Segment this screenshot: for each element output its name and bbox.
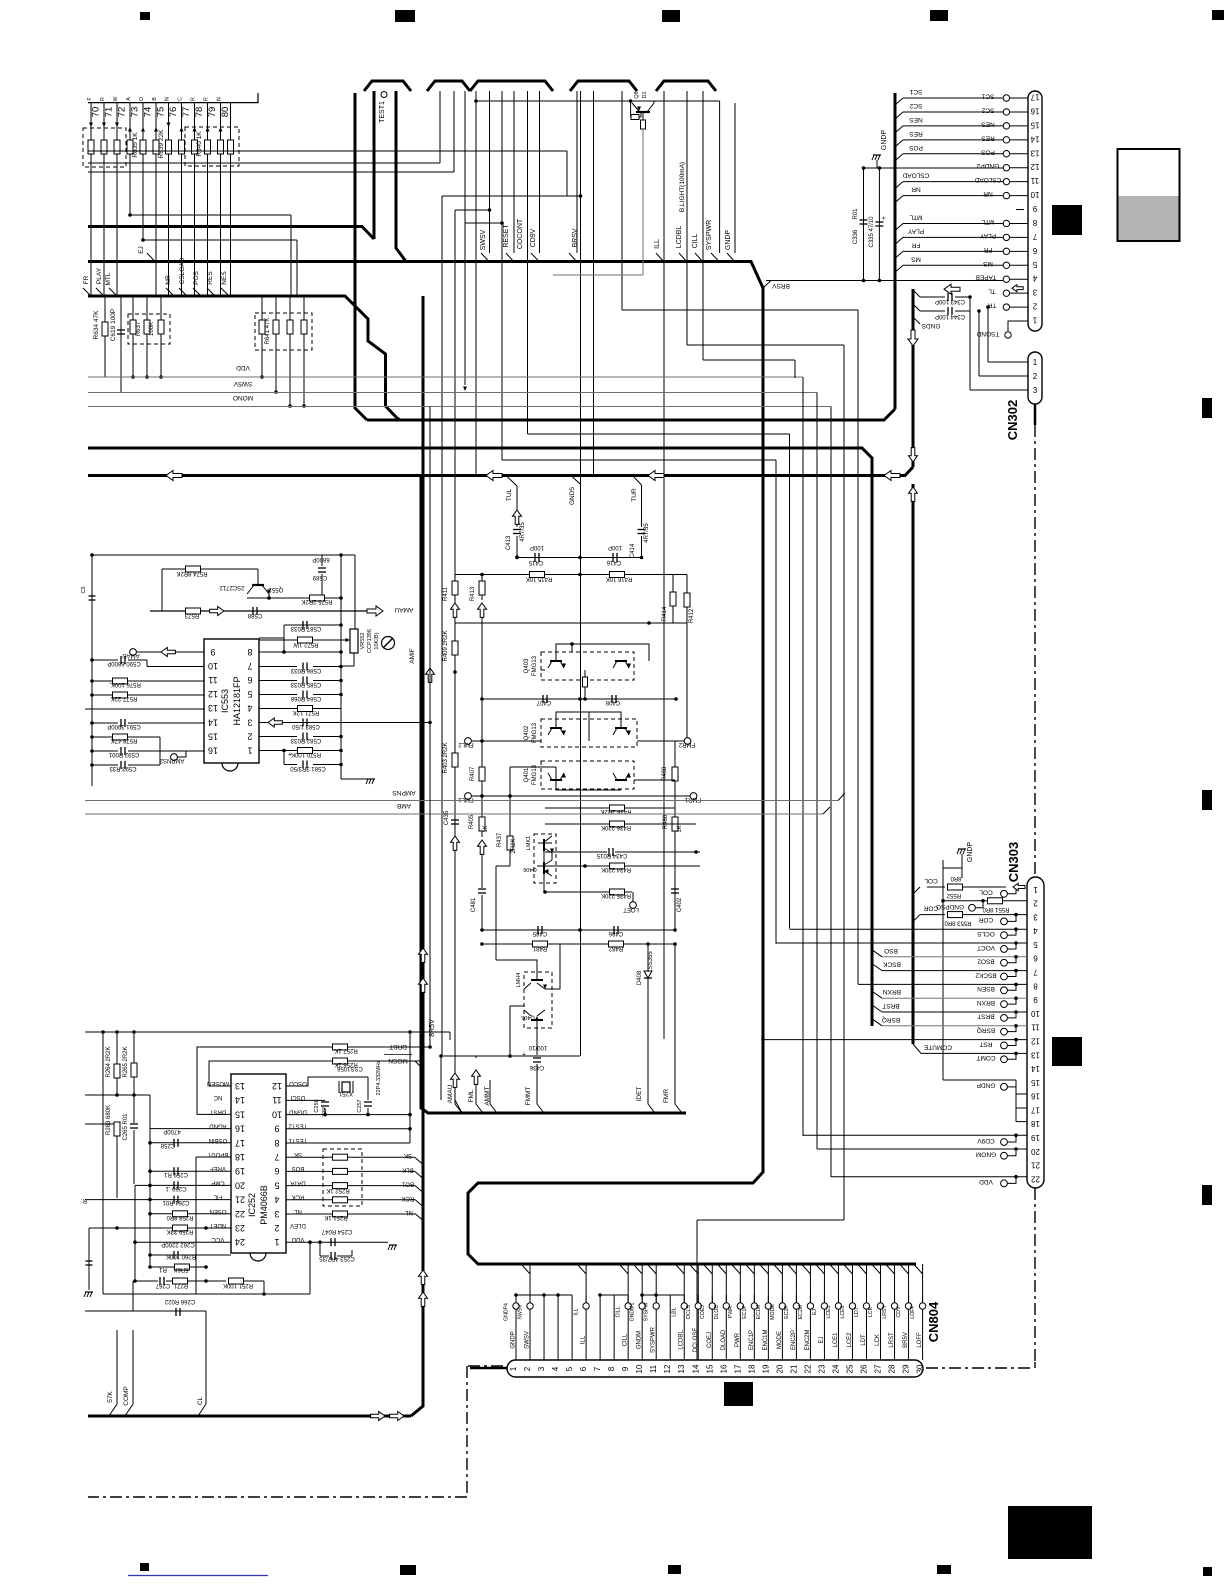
svg-text:R635 1K: R635 1K bbox=[132, 132, 139, 158]
svg-text:CILL: CILL bbox=[623, 1333, 629, 1346]
svg-text:2R2K: 2R2K bbox=[511, 838, 517, 853]
svg-text:16: 16 bbox=[1031, 1092, 1040, 1101]
svg-text:17: 17 bbox=[733, 1364, 742, 1373]
capacitor C583 1/50 bbox=[302, 719, 304, 727]
svg-text:R640 1K: R640 1K bbox=[196, 131, 203, 157]
wire COMUTE bbox=[913, 1044, 921, 1053]
resistor R251 100K bbox=[206, 1280, 226, 1282]
svg-text:15: 15 bbox=[235, 1109, 245, 1119]
wire VDD row bbox=[831, 1176, 1027, 1178]
svg-text:2: 2 bbox=[1033, 372, 1038, 381]
svg-text:13: 13 bbox=[235, 1081, 245, 1091]
svg-text:30: 30 bbox=[916, 1364, 925, 1373]
capacitor C408 bbox=[611, 695, 613, 703]
svg-text:10K(B): 10K(B) bbox=[374, 632, 380, 649]
svg-text:19: 19 bbox=[761, 1364, 770, 1373]
svg-text:EC2P: EC2P bbox=[784, 1305, 790, 1319]
svg-text:BRXN: BRXN bbox=[977, 999, 995, 1006]
svg-text:F: F bbox=[87, 97, 93, 100]
svg-text:C585 R033: C585 R033 bbox=[290, 681, 321, 687]
svg-text:LCE1: LCE1 bbox=[833, 1332, 839, 1348]
svg-text:10: 10 bbox=[1031, 1009, 1040, 1018]
svg-text:AMAU: AMAU bbox=[394, 606, 413, 613]
svg-text:10: 10 bbox=[272, 1109, 282, 1119]
svg-text:FMR: FMR bbox=[663, 1089, 670, 1103]
capacitor C436 100/10 bbox=[533, 1057, 541, 1059]
resistor R641 group bbox=[275, 296, 277, 320]
svg-text:COMT: COMT bbox=[976, 1054, 995, 1061]
wire BPOUT row bbox=[196, 1156, 231, 1158]
wire GND5 drop bbox=[571, 476, 580, 485]
resistor R437 2R2K bbox=[507, 836, 513, 850]
chain border to CN804 right bbox=[1034, 1362, 1036, 1368]
svg-text:D408: D408 bbox=[637, 970, 643, 985]
arrow up R405 bbox=[478, 840, 487, 854]
svg-text:28: 28 bbox=[888, 1364, 897, 1373]
svg-text:8: 8 bbox=[1032, 218, 1037, 227]
svg-text:FMR2: FMR2 bbox=[678, 741, 695, 747]
svg-text:PM4066B: PM4066B bbox=[259, 1185, 269, 1225]
svg-text:79: 79 bbox=[207, 107, 218, 118]
svg-text:W: W bbox=[113, 96, 119, 101]
svg-text:R438 2R2K: R438 2R2K bbox=[600, 808, 631, 814]
transistor pair Q403 FMG13 dashed box bbox=[541, 652, 634, 680]
resistor R438 2R2K bbox=[634, 779, 675, 781]
wire BSO bbox=[872, 950, 882, 957]
svg-text:N: N bbox=[165, 97, 171, 101]
circle FML1 bbox=[465, 793, 472, 800]
svg-text:70: 70 bbox=[91, 107, 102, 118]
wire NDET row bbox=[89, 1227, 231, 1229]
wire row y=944 bbox=[482, 943, 675, 945]
fiducial marks top edge bbox=[140, 12, 150, 20]
svg-text:2: 2 bbox=[247, 731, 252, 741]
svg-text:10: 10 bbox=[635, 1364, 644, 1373]
wire AGND row bbox=[150, 1128, 231, 1130]
CN302 pin4 TAPEB bbox=[1010, 278, 1029, 280]
svg-text:CD9V: CD9V bbox=[530, 228, 537, 247]
capacitor C267 bbox=[159, 1277, 161, 1285]
wire TUR drop bbox=[633, 476, 642, 486]
CN303 signal BSRQ bbox=[1001, 1028, 1008, 1035]
svg-text:VREF: VREF bbox=[210, 1165, 226, 1171]
svg-text:VR552: VR552 bbox=[360, 633, 366, 650]
svg-text:MODE: MODE bbox=[777, 1331, 783, 1349]
row R1 5R6K R271 bbox=[135, 1280, 158, 1282]
svg-text:12: 12 bbox=[208, 689, 218, 699]
svg-text:C586 R033: C586 R033 bbox=[290, 667, 321, 673]
capacitor C481 bbox=[481, 860, 483, 888]
svg-text:9: 9 bbox=[274, 1124, 279, 1134]
capacitor C265 R01 bbox=[133, 1095, 135, 1123]
wire pin3 AMIF row bbox=[259, 722, 430, 724]
svg-text:R1: R1 bbox=[159, 1266, 167, 1272]
wire right column x=687 bbox=[686, 623, 688, 741]
svg-text:FML2: FML2 bbox=[458, 741, 474, 747]
svg-text:23: 23 bbox=[235, 1223, 245, 1233]
resistor R411 bbox=[454, 575, 456, 582]
svg-text:R575 2R2K: R575 2R2K bbox=[301, 598, 332, 604]
svg-text:BSCK: BSCK bbox=[882, 961, 900, 968]
svg-text:15: 15 bbox=[1030, 120, 1039, 129]
svg-text:27: 27 bbox=[874, 1364, 883, 1373]
resistor R577 22K bbox=[92, 694, 112, 696]
svg-text:1K: 1K bbox=[483, 825, 489, 832]
svg-text:SC1: SC1 bbox=[909, 88, 922, 95]
right rail x=410 bbox=[409, 1032, 411, 1143]
svg-text:1K: 1K bbox=[677, 825, 683, 832]
svg-text:100P: 100P bbox=[608, 544, 622, 550]
transistor Q551 2SC2712 bbox=[252, 584, 264, 586]
svg-text:11: 11 bbox=[208, 675, 217, 685]
IC553 box bbox=[204, 639, 259, 763]
arrow AMAU out bbox=[367, 606, 383, 616]
svg-text:20: 20 bbox=[1031, 1147, 1040, 1156]
svg-text:GNDP: GNDP bbox=[881, 130, 888, 151]
wire TEST1 right vertical merging bus bbox=[396, 91, 406, 262]
svg-text:CSLOAD: CSLOAD bbox=[902, 172, 929, 179]
wire Q403 top bbox=[556, 644, 649, 661]
capacitor C343 100P bbox=[920, 296, 945, 298]
svg-text:6: 6 bbox=[274, 1166, 279, 1176]
resistor R403 2R2K bbox=[454, 741, 456, 753]
CN303 signal BSO2 bbox=[1001, 959, 1008, 966]
CN303 signal OCLS bbox=[1001, 932, 1008, 939]
svg-text:CL: CL bbox=[197, 1396, 204, 1405]
svg-text:AMIF: AMIF bbox=[409, 648, 416, 664]
svg-text:ENC1M: ENC1M bbox=[763, 1329, 769, 1350]
svg-text:6800P: 6800P bbox=[312, 556, 329, 562]
pin header top-left outline bbox=[88, 93, 258, 103]
svg-text:C435: C435 bbox=[444, 810, 450, 825]
svg-text:FIL: FIL bbox=[213, 1194, 222, 1200]
svg-text:100P: 100P bbox=[530, 544, 544, 550]
resistor R482 bbox=[609, 941, 624, 947]
CN302 pin1 TSGND bbox=[1008, 321, 1028, 331]
CN303 pin1 COL wire with R552 8R0 bbox=[1013, 883, 1025, 891]
CN303 left feed wires bbox=[790, 928, 1028, 930]
arrow into pin3 bbox=[268, 718, 282, 727]
svg-text:R437: R437 bbox=[497, 832, 503, 847]
bus horizontal y=296 diving down bbox=[88, 296, 400, 420]
svg-text:R411: R411 bbox=[443, 586, 449, 601]
resistor R574 8R2K bbox=[162, 568, 185, 570]
wire SW5V drop x=817 bbox=[816, 393, 818, 1150]
svg-text:R552: R552 bbox=[946, 892, 961, 898]
svg-text:EC1P: EC1P bbox=[742, 1305, 748, 1319]
resistor R436 220K bbox=[610, 821, 625, 827]
capacitor C402 bbox=[674, 884, 676, 888]
svg-text:BRXN: BRXN bbox=[883, 988, 901, 995]
svg-text:R572 1W: R572 1W bbox=[293, 641, 318, 647]
svg-text:COR: COR bbox=[978, 916, 993, 923]
svg-text:FMMT: FMMT bbox=[525, 1087, 532, 1106]
svg-text:DLEV: DLEV bbox=[290, 1222, 306, 1228]
svg-text:ENC2M: ENC2M bbox=[805, 1329, 811, 1350]
SK BLK BO1 RCK NL taps onto x423 bbox=[415, 1158, 423, 1165]
svg-text:24: 24 bbox=[235, 1237, 245, 1247]
arrow up C435 bbox=[451, 836, 460, 850]
resistor in column x bbox=[228, 140, 234, 154]
resistor in column 75 bbox=[153, 140, 159, 154]
svg-text:13: 13 bbox=[677, 1364, 686, 1373]
CN303 signal COL bbox=[1001, 890, 1008, 897]
svg-text:R637: R637 bbox=[136, 321, 142, 336]
wire OSBIN row bbox=[170, 1142, 231, 1144]
wire row y=1294 bbox=[103, 1293, 310, 1295]
resistor base feed bbox=[630, 101, 632, 117]
svg-text:9: 9 bbox=[621, 1366, 630, 1371]
svg-text:LDT: LDT bbox=[854, 1306, 860, 1317]
arrow on bus475 left bbox=[166, 471, 182, 481]
svg-text:12: 12 bbox=[1031, 1036, 1040, 1045]
svg-text:R263 680K: R263 680K bbox=[106, 1105, 112, 1135]
svg-text:MOSN: MOSN bbox=[388, 1057, 408, 1064]
svg-text:4: 4 bbox=[551, 1366, 560, 1371]
svg-text:X251: X251 bbox=[338, 1090, 353, 1096]
svg-text:22P4.332MHz: 22P4.332MHz bbox=[376, 1060, 382, 1095]
main bus horizontal y=261.5 to vertical x=763 bbox=[88, 262, 916, 1265]
bus y=475 full width bbox=[88, 467, 913, 476]
svg-text:10: 10 bbox=[1030, 190, 1039, 199]
svg-text:FML: FML bbox=[468, 1089, 475, 1102]
svg-text:MTL: MTL bbox=[909, 213, 922, 220]
svg-text:MOSEN: MOSEN bbox=[207, 1080, 229, 1086]
ground GNDP near CN302 bbox=[876, 160, 878, 168]
resistor in column 74 bbox=[140, 140, 146, 154]
wire pin10 row bbox=[147, 666, 204, 668]
svg-text:VOCT: VOCT bbox=[977, 944, 995, 951]
transistor pair Q402 FMG13 dashed box bbox=[541, 719, 637, 747]
arrows up on x423 bbox=[419, 948, 428, 962]
svg-text:4700P: 4700P bbox=[163, 1128, 180, 1134]
wires Q405 bbox=[496, 960, 537, 974]
wire row 240 bbox=[143, 239, 297, 241]
svg-text:C593 R33: C593 R33 bbox=[109, 765, 137, 771]
svg-text:1: 1 bbox=[509, 1366, 518, 1371]
wire Q405 bottom to FMMT bbox=[536, 1028, 538, 1055]
svg-text:SK: SK bbox=[404, 1152, 412, 1158]
svg-text:LCE2: LCE2 bbox=[847, 1332, 853, 1348]
svg-text:DGND: DGND bbox=[289, 1108, 307, 1114]
svg-text:15: 15 bbox=[208, 731, 218, 741]
large black rectangle bottom right bbox=[1008, 1506, 1092, 1559]
dashed box R641 bbox=[255, 313, 312, 350]
svg-text:CDV: CDV bbox=[896, 1306, 902, 1317]
svg-text:15: 15 bbox=[705, 1364, 714, 1373]
CN303 signal VDD bbox=[1001, 1180, 1008, 1187]
svg-text:RCK: RCK bbox=[402, 1195, 415, 1201]
crystal X251 CSS1056 bbox=[286, 1077, 345, 1086]
svg-text:12: 12 bbox=[663, 1364, 672, 1373]
transistor pair Q401 FMG13 dashed box bbox=[541, 761, 634, 789]
svg-text:SYSPW: SYSPW bbox=[644, 1303, 650, 1322]
svg-text:FMG13: FMG13 bbox=[532, 722, 538, 743]
svg-text:13: 13 bbox=[1030, 148, 1039, 157]
transistor Q403b bbox=[615, 660, 627, 662]
svg-text:POS: POS bbox=[193, 270, 200, 284]
registration square near CN303 bbox=[1052, 1037, 1082, 1066]
wire TEST2 row bbox=[286, 1128, 410, 1130]
svg-text:C5: C5 bbox=[81, 586, 87, 593]
svg-text:C589: C589 bbox=[312, 574, 327, 580]
capacitor C258 4700P bbox=[173, 1139, 175, 1147]
svg-text:C436: C436 bbox=[529, 1064, 544, 1070]
wire BRXN bbox=[872, 991, 882, 998]
svg-text:80: 80 bbox=[220, 107, 231, 118]
svg-text:AGND: AGND bbox=[209, 1123, 227, 1129]
svg-text:1: 1 bbox=[1033, 885, 1038, 894]
wire VR552 riser bbox=[354, 555, 356, 629]
wire MONO drop to DRST bbox=[429, 407, 431, 1048]
svg-text:EJ: EJ bbox=[812, 1309, 818, 1315]
circle AMPNS2 bbox=[171, 754, 178, 761]
svg-text:9: 9 bbox=[1033, 995, 1038, 1004]
svg-text:2: 2 bbox=[523, 1366, 532, 1371]
svg-text:VDD: VDD bbox=[979, 1178, 993, 1185]
svg-text:BR5V: BR5V bbox=[903, 1332, 909, 1348]
svg-text:R574 8R2K: R574 8R2K bbox=[176, 570, 207, 576]
svg-text:C343 100P: C343 100P bbox=[935, 298, 965, 304]
svg-text:NES: NES bbox=[909, 116, 923, 123]
svg-text:LCDBL: LCDBL bbox=[679, 1330, 685, 1350]
resistor R252 BLK bbox=[286, 1170, 332, 1172]
capacitor C414 4R7/35 bbox=[638, 529, 646, 531]
circle FMR2 bbox=[684, 738, 691, 745]
wire row SW5V y=392.5 bbox=[88, 392, 817, 394]
svg-text:ILL: ILL bbox=[654, 239, 661, 249]
svg-text:R639 22K: R639 22K bbox=[158, 129, 165, 159]
long thick vertical x=423 bbox=[411, 296, 423, 1416]
svg-text:LCE1: LCE1 bbox=[826, 1305, 832, 1318]
thick bus y=1113 center bbox=[421, 1100, 686, 1113]
svg-text:C486: C486 bbox=[608, 930, 623, 936]
CN303 signal BSCK2 bbox=[1001, 973, 1008, 980]
svg-text:AMPNS: AMPNS bbox=[392, 789, 416, 796]
capacitor C485 bbox=[537, 926, 539, 934]
svg-text:R251 100K: R251 100K bbox=[223, 1282, 253, 1288]
svg-text:BOS: BOS bbox=[292, 1165, 305, 1171]
svg-text:21: 21 bbox=[789, 1364, 798, 1373]
CN303 signal VOCT bbox=[1001, 946, 1008, 953]
svg-text:19: 19 bbox=[1031, 1133, 1040, 1142]
arrow up R413 bbox=[481, 595, 483, 600]
CN303 signal BRXN bbox=[1001, 1001, 1008, 1008]
svg-text:TUL: TUL bbox=[506, 488, 513, 501]
svg-text:CCP1396: CCP1396 bbox=[367, 629, 373, 653]
circle FML2 bbox=[465, 738, 472, 745]
resistor R415 10K bbox=[530, 572, 545, 578]
arrow down GNDS bbox=[908, 330, 918, 346]
svg-text:10: 10 bbox=[208, 661, 218, 671]
svg-text:MS: MS bbox=[910, 255, 920, 262]
svg-text:BRST: BRST bbox=[882, 1002, 899, 1009]
label AMB bbox=[85, 813, 823, 815]
svg-text:5: 5 bbox=[247, 689, 252, 699]
wire row y=699 with caps bbox=[482, 698, 676, 700]
svg-text:NR: NR bbox=[911, 186, 921, 193]
svg-text:C344 100P: C344 100P bbox=[935, 313, 965, 319]
svg-text:R570 100K: R570 100K bbox=[291, 751, 321, 757]
svg-text:7: 7 bbox=[1033, 968, 1038, 977]
svg-text:8: 8 bbox=[607, 1366, 616, 1371]
svg-text:EJ: EJ bbox=[819, 1336, 825, 1343]
svg-text:IDET: IDET bbox=[636, 1087, 643, 1102]
svg-text:LCK: LCK bbox=[875, 1334, 881, 1346]
wire MONO drop x=831 bbox=[830, 407, 832, 1178]
left rail x=92 bbox=[91, 555, 93, 786]
wire row y=360 bbox=[703, 359, 795, 361]
svg-text:OCLS: OCLS bbox=[976, 930, 994, 937]
svg-text:B.LIGHT(100mA): B.LIGHT(100mA) bbox=[679, 162, 686, 212]
resistor R252 RCK bbox=[286, 1199, 332, 1201]
wire GNDP2 row y=168 bbox=[864, 167, 1007, 169]
svg-text:C260 .1: C260 .1 bbox=[165, 1185, 187, 1191]
CN302 side thick rail x=895 bbox=[894, 93, 897, 409]
svg-text:2: 2 bbox=[1033, 899, 1038, 908]
wire x=465 with arrow to SW5V row bbox=[464, 91, 466, 385]
svg-text:COL: COL bbox=[979, 889, 993, 896]
arrow up AMAU bbox=[451, 1073, 460, 1087]
wire row y=163 bbox=[88, 162, 440, 164]
svg-text:4: 4 bbox=[1033, 926, 1038, 935]
svg-text:75: 75 bbox=[156, 107, 167, 118]
wire C589 branch bbox=[321, 555, 323, 566]
svg-text:74: 74 bbox=[143, 107, 154, 118]
arrow down into x913 bbox=[909, 448, 918, 462]
svg-text:100/10: 100/10 bbox=[528, 1044, 547, 1050]
svg-text:20: 20 bbox=[235, 1180, 245, 1190]
capacitor C619 100P bbox=[120, 296, 122, 392]
resistor in column 79 bbox=[205, 140, 211, 154]
wire OSEN row bbox=[150, 1213, 231, 1215]
wire x150 column bbox=[149, 1129, 151, 1267]
capacitor C344 100P bbox=[920, 310, 945, 312]
svg-text:PWR: PWR bbox=[728, 1306, 734, 1318]
svg-text:6: 6 bbox=[579, 1366, 588, 1371]
svg-text:N: N bbox=[217, 97, 223, 101]
blue underline bottom left bbox=[128, 1575, 268, 1577]
CN302 pin3 TL bbox=[1010, 292, 1029, 294]
svg-text:R571 12K: R571 12K bbox=[293, 709, 320, 715]
svg-text:COL: COL bbox=[924, 877, 938, 884]
svg-text:NDET: NDET bbox=[210, 1222, 227, 1228]
fiducial marks right edge bbox=[1202, 398, 1212, 418]
svg-text:12: 12 bbox=[1030, 162, 1039, 171]
transistor Q406a bbox=[538, 842, 552, 844]
svg-text:BSEN: BSEN bbox=[977, 985, 995, 992]
svg-text:11: 11 bbox=[649, 1364, 658, 1373]
wire BSCK bbox=[872, 964, 882, 971]
svg-text:Q401: Q401 bbox=[524, 767, 530, 782]
svg-text:R407: R407 bbox=[470, 766, 476, 781]
svg-text:FMG13: FMG13 bbox=[532, 655, 538, 676]
svg-text:C335 47/10: C335 47/10 bbox=[869, 216, 875, 248]
svg-text:8: 8 bbox=[274, 1138, 279, 1148]
svg-text:GNDPSG: GNDPSG bbox=[936, 903, 964, 910]
svg-text:GNDM: GNDM bbox=[637, 1331, 643, 1349]
wire row y=172 bbox=[88, 171, 454, 173]
svg-text:TEST1: TEST1 bbox=[288, 1137, 307, 1143]
svg-text:BO1: BO1 bbox=[401, 1181, 414, 1187]
svg-text:R488: R488 bbox=[662, 766, 668, 781]
svg-text:FR: FR bbox=[83, 275, 90, 284]
capacitor C585 R033 bbox=[259, 680, 297, 682]
svg-text:C413: C413 bbox=[506, 535, 512, 550]
wire left rail x=103 bbox=[102, 1032, 104, 1294]
wire AMIF junction bbox=[428, 721, 432, 725]
svg-text:2: 2 bbox=[1032, 302, 1037, 311]
